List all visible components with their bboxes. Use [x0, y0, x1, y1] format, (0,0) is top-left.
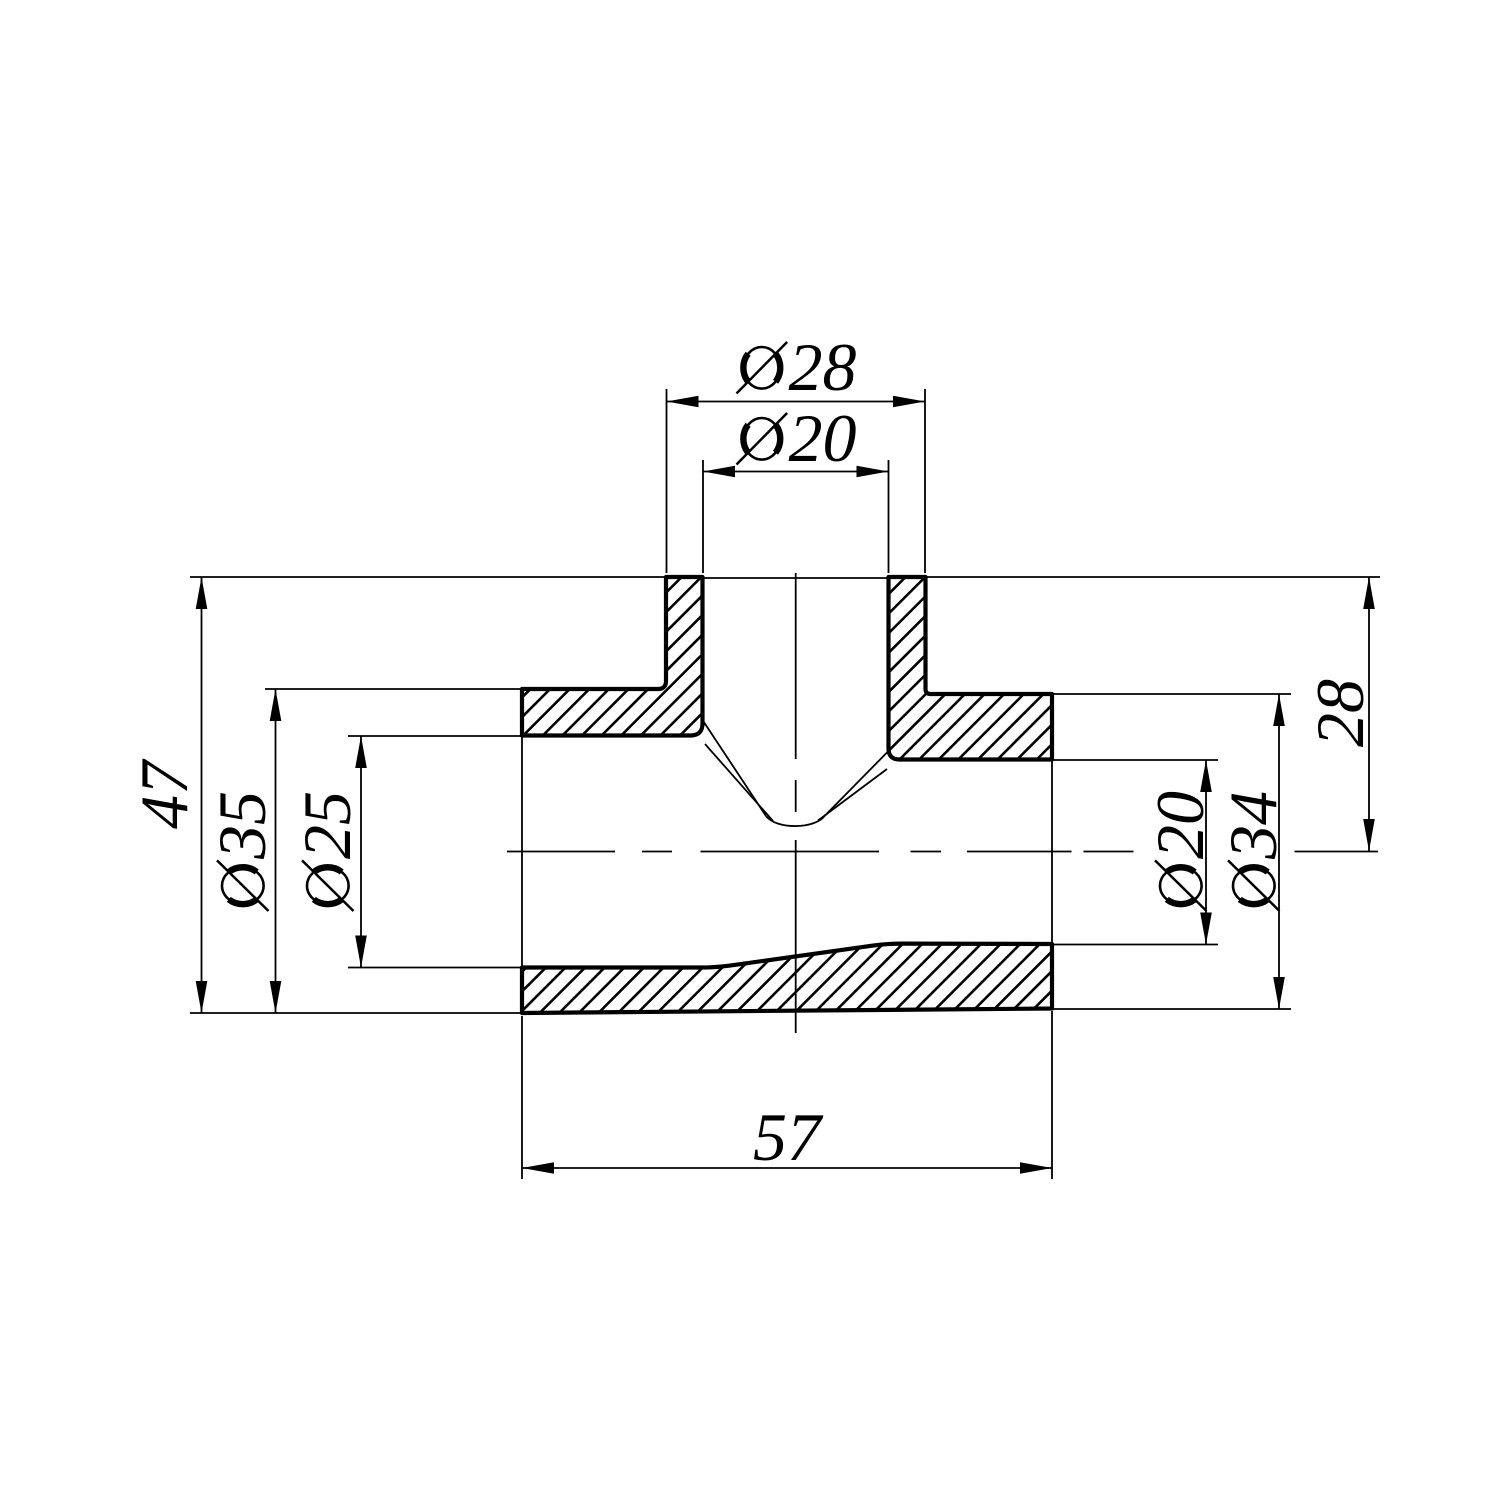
- svg-text:28: 28: [789, 329, 857, 405]
- dimension Ø34: extension lines: [1052, 694, 1291, 1009]
- dimension Ø20 top: extension lines: [703, 460, 889, 573]
- svg-text:20: 20: [789, 400, 857, 476]
- dimension Ø20 right: extension lines: [1052, 760, 1218, 945]
- svg-text:57: 57: [753, 1099, 824, 1175]
- vertical centerline of branch: [795, 573, 797, 1033]
- dimension Ø28: value label: [737, 329, 857, 405]
- dimension 47: bottom extension line: [190, 1012, 522, 1014]
- dimension Ø28: dimension line: [667, 401, 926, 403]
- bore transition cone right lower line: [818, 769, 887, 821]
- right socket mouth edge: [1051, 760, 1053, 945]
- dimension Ø35: value label: [204, 791, 280, 911]
- svg-text:47: 47: [126, 758, 202, 829]
- bore transition cone bottom arc: [766, 816, 825, 827]
- tee body: top-left wall section (hatched): [346, 577, 877, 736]
- left socket mouth edge: [521, 736, 523, 968]
- svg-text:35: 35: [204, 791, 280, 860]
- dimension Ø20 top: value label: [737, 400, 857, 476]
- dimension Ø35: dimension line: [275, 689, 277, 1013]
- dimension 57: extension lines: [522, 1011, 1052, 1179]
- dimension Ø25: extension lines: [348, 736, 522, 968]
- dimension Ø35: top extension line: [265, 688, 522, 690]
- dimension Ø25: dimension line: [360, 736, 362, 968]
- dimension 57: dimension line: [522, 1167, 1052, 1169]
- bore transition cone left upper line: [703, 720, 767, 816]
- svg-text:28: 28: [1302, 679, 1378, 747]
- svg-text:20: 20: [1142, 791, 1218, 859]
- dimension Ø28: extension lines: [667, 389, 926, 573]
- tee body: bottom wall section (hatched): [442, 943, 1139, 1013]
- svg-text:34: 34: [1215, 791, 1291, 860]
- dimension Ø20 top: dimension line: [703, 471, 889, 473]
- dimension Ø34: dimension line: [1278, 694, 1280, 1009]
- dimension 28: top extension line: [926, 576, 1381, 578]
- dimension Ø20 right: dimension line: [1205, 760, 1207, 945]
- dimension Ø34: value label: [1215, 791, 1291, 911]
- tee body: top-right wall section (hatched): [703, 577, 1239, 760]
- branch bore mouth edge (top opening): [703, 577, 889, 579]
- dimension 28: dimension line: [1368, 577, 1370, 851]
- horizontal centerline of main pipe: [507, 851, 1378, 853]
- dimension 47: dimension line: [201, 577, 203, 1013]
- svg-text:25: 25: [289, 791, 365, 859]
- dimension Ø25: value label: [289, 791, 365, 911]
- bore transition cone right upper line: [825, 751, 889, 816]
- dimension Ø20 right: value label: [1142, 791, 1218, 911]
- bore transition cone left lower line: [705, 744, 773, 821]
- dimension 28: value label: [1302, 679, 1378, 747]
- dimension 47: top extension line: [190, 576, 666, 578]
- dimension 47: value label: [126, 758, 202, 829]
